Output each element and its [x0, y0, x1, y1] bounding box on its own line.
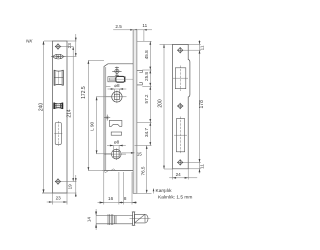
- strike screw hole bottom: [177, 159, 183, 165]
- strike screw hole middle: [177, 103, 183, 109]
- svg-text:172.5: 172.5: [81, 86, 87, 99]
- cylinder screw symbol (big diamond): [51, 54, 66, 59]
- dim 214: [58, 47, 74, 182]
- body bottom zigzag: [103, 169, 116, 173]
- dim 19 bottom right: [42, 175, 77, 197]
- svg-text:214: 214: [67, 109, 73, 118]
- svg-text:8: 8: [124, 196, 127, 201]
- dims 16 and 8 under body: [98, 172, 138, 205]
- faceplate cross-section lines: [108, 214, 116, 225]
- top follower (square spindle hole): [106, 91, 127, 104]
- svg-text:2.5: 2.5: [115, 24, 122, 29]
- vertical slot: [54, 121, 62, 146]
- svg-text:57.2: 57.2: [144, 94, 149, 103]
- svg-text:23: 23: [67, 43, 72, 49]
- dim 14: [95, 209, 97, 230]
- svg-text:34.7: 34.7: [144, 128, 149, 137]
- leader and notes: [153, 189, 155, 194]
- svg-text:L 90: L 90: [90, 121, 95, 130]
- latch slot side view: [108, 76, 125, 82]
- svg-text:15: 15: [137, 152, 143, 157]
- faceplate edge strip: [133, 30, 137, 194]
- svg-text:200: 200: [157, 99, 163, 108]
- svg-text:Kalınlık: 1.5 mm: Kalınlık: 1.5 mm: [158, 195, 192, 201]
- adjusting screw symbol: [112, 67, 121, 77]
- dim 45.8: [149, 41, 151, 70]
- top screw hole: [55, 43, 61, 49]
- dim 172.5: [88, 61, 105, 171]
- svg-text:11: 11: [200, 164, 205, 169]
- svg-text:25.8: 25.8: [144, 72, 149, 81]
- latch bolt front view: [54, 70, 63, 86]
- dim 23 bottom: [47, 193, 68, 205]
- bottom follower: [105, 148, 127, 160]
- dim 200: [160, 44, 174, 169]
- svg-text:NK: NK: [26, 39, 33, 44]
- svg-text:Karşılık: Karşılık: [156, 188, 173, 194]
- svg-text:11: 11: [200, 45, 205, 50]
- latch bar top view: [96, 216, 133, 224]
- lock body outline: [104, 64, 133, 171]
- dim 24 bottom: [169, 169, 197, 180]
- dim 2.5 and 11 top: [113, 29, 152, 41]
- deadbolt slot opening: [174, 117, 187, 155]
- latch protruding through faceplate: [137, 70, 142, 85]
- right side extension lines: [106, 41, 152, 193]
- svg-text:14: 14: [87, 217, 92, 223]
- latch bolt top view with bevel: [130, 214, 151, 223]
- svg-text:⌀8: ⌀8: [114, 83, 120, 88]
- bottom screw hole: [55, 178, 61, 184]
- strike screw hole top: [177, 47, 183, 53]
- dim 240 line: [42, 41, 53, 193]
- dim 15: [122, 152, 135, 154]
- svg-text:76.5: 76.5: [140, 166, 145, 175]
- centre mark: [104, 115, 110, 121]
- svg-text:23: 23: [56, 196, 62, 201]
- small slot: [111, 132, 121, 135]
- svg-text:11: 11: [142, 23, 147, 28]
- latch flange cross-section: [132, 212, 136, 225]
- faceplate plate outline: [53, 41, 68, 193]
- auxiliary latch (small dark spool): [54, 103, 64, 109]
- svg-text:⌀8: ⌀8: [114, 139, 120, 144]
- strike plate outline: [173, 44, 190, 168]
- latch opening: [173, 66, 188, 92]
- svg-text:16: 16: [108, 196, 114, 201]
- dim 11 top / 178 / 11 bottom: [183, 40, 201, 174]
- svg-text:240: 240: [38, 103, 44, 112]
- svg-text:45.8: 45.8: [144, 50, 149, 59]
- svg-text:24: 24: [176, 172, 182, 177]
- bracket component: [109, 120, 122, 126]
- dim L 90: [96, 97, 111, 154]
- svg-text:19: 19: [67, 184, 72, 190]
- dim 23 top right: [58, 34, 76, 57]
- svg-text:178: 178: [199, 100, 205, 109]
